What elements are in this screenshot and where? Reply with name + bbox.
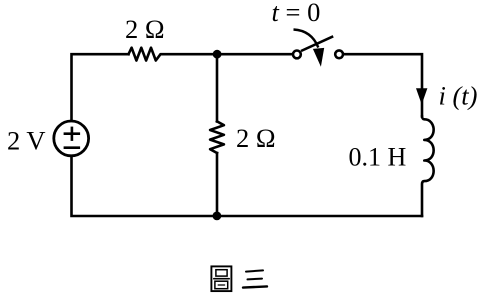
svg-text:i (t): i (t)	[439, 80, 478, 110]
svg-text:2 Ω: 2 Ω	[125, 14, 165, 44]
svg-text:t = 0: t = 0	[272, 0, 321, 27]
svg-text:2 V: 2 V	[7, 125, 46, 155]
svg-text:2 Ω: 2 Ω	[236, 123, 276, 153]
svg-text:0.1 H: 0.1 H	[349, 142, 407, 171]
